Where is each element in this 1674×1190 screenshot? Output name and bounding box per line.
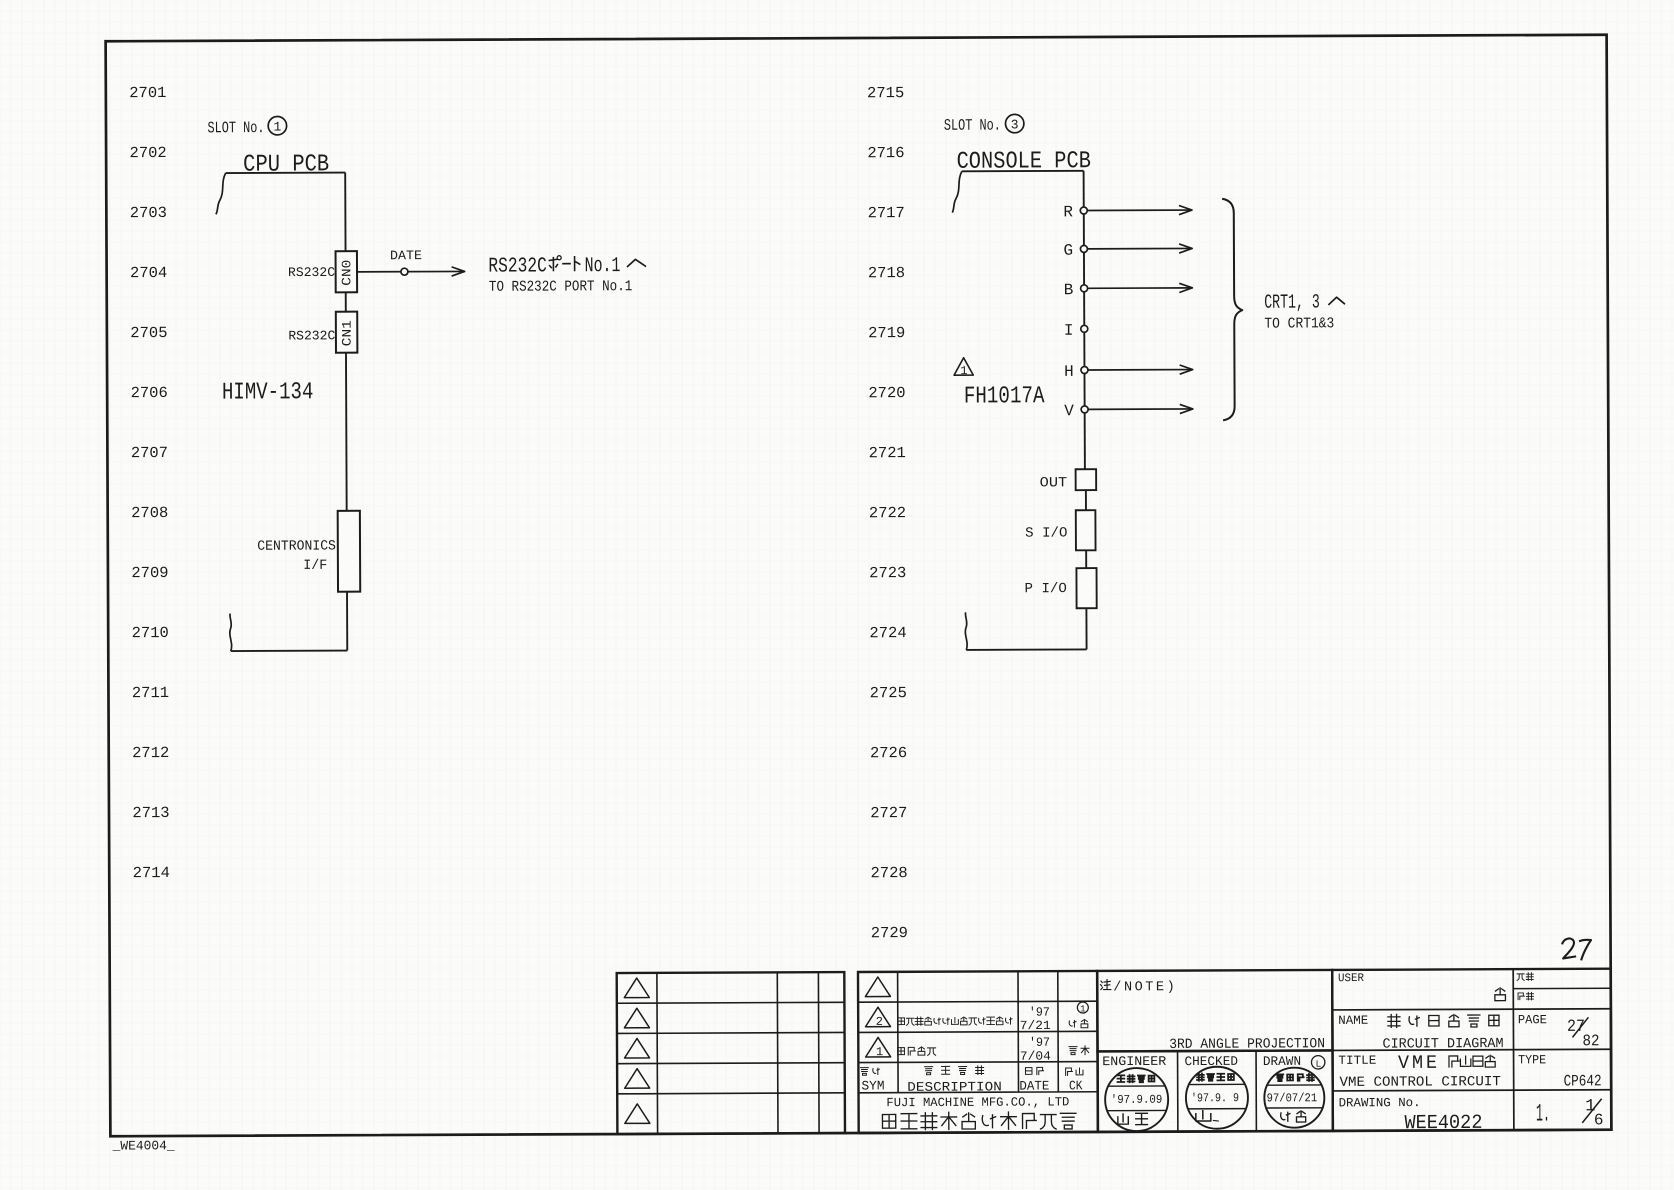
- wire B to CRT: [1088, 287, 1193, 289]
- wire CN1 to CENTRONICS I/F: [345, 353, 348, 511]
- svg-text:S I/O: S I/O: [1025, 525, 1067, 541]
- seiban label: [1518, 993, 1524, 1000]
- katakana long vowel bar: [562, 263, 571, 265]
- svg-text:No.1: No.1: [585, 255, 621, 278]
- svg-text:2707: 2707: [131, 444, 168, 462]
- wire CENTRONICS to board bottom edge: [346, 592, 348, 651]
- svg-text:2727: 2727: [870, 804, 907, 822]
- revision triangle row1: [865, 977, 890, 997]
- connector CN0 (RS232C): [336, 251, 358, 292]
- wire G to CRT: [1088, 247, 1193, 249]
- wire R to CRT: [1087, 209, 1192, 211]
- svg-text:I: I: [1064, 322, 1074, 340]
- svg-text:SLOT No.: SLOT No.: [944, 117, 1001, 135]
- company name Japanese (Fuji Kikai Seizou KK): [882, 1114, 895, 1128]
- svg-text:VME CONTROL CIRCUIT: VME CONTROL CIRCUIT: [1339, 1074, 1500, 1091]
- wire P I/O to board bottom: [1085, 608, 1087, 649]
- svg-text:H: H: [1064, 363, 1074, 381]
- bunban label: [1517, 974, 1524, 981]
- svg-text:CN1: CN1: [340, 320, 355, 346]
- revision 2 CK stamp: circled 1 + Esaka: [1077, 1002, 1088, 1013]
- svg-text:FH1017A: FH1017A: [964, 383, 1045, 410]
- svg-text:/NOTE): /NOTE): [1113, 980, 1177, 995]
- svg-text:1: 1: [876, 1045, 883, 1059]
- svg-text:CN0: CN0: [339, 260, 354, 286]
- video bus wire R..V: [1084, 171, 1085, 469]
- revision triangle placeholder row 2: [624, 1008, 649, 1028]
- svg-text:WEE4022: WEE4022: [1404, 1112, 1482, 1135]
- hiragana he (to): [627, 259, 646, 267]
- svg-text:ENGINEER: ENGINEER: [1102, 1054, 1166, 1069]
- svg-text:R: R: [1063, 203, 1073, 221]
- document name: denki kairo senzu: [1388, 1014, 1400, 1027]
- svg-text:1.: 1.: [1536, 1099, 1550, 1128]
- svg-text:2722: 2722: [869, 504, 906, 522]
- checked stamp (Yama..): [1186, 1067, 1248, 1129]
- svg-text:2724: 2724: [869, 624, 906, 642]
- wire OUT to S I/O: [1085, 490, 1087, 510]
- svg-text:V: V: [1064, 402, 1074, 420]
- svg-text:HIMV-134: HIMV-134: [222, 379, 314, 406]
- svg-text:2728: 2728: [870, 864, 907, 882]
- yama kanji: [1196, 1110, 1211, 1121]
- svg-text:2716: 2716: [867, 144, 904, 162]
- svg-text:2719: 2719: [868, 324, 905, 342]
- revision triangle placeholder row 1: [624, 978, 649, 998]
- svg-text:CIRCUIT DIAGRAM: CIRCUIT DIAGRAM: [1382, 1036, 1503, 1053]
- svg-text:'97.9. 9: '97.9. 9: [1191, 1091, 1239, 1105]
- svg-text:I/F: I/F: [303, 558, 327, 574]
- svg-text:DATE: DATE: [390, 248, 422, 263]
- svg-text:SYM: SYM: [861, 1078, 884, 1093]
- svg-text:'97: '97: [1029, 1006, 1050, 1020]
- note label (chuu/NOTE): [1101, 980, 1111, 990]
- wire V to CRT: [1088, 408, 1193, 410]
- wire CN0 to CN1: [345, 292, 347, 311]
- svg-text:USER: USER: [1338, 972, 1364, 985]
- svg-text:2725: 2725: [870, 684, 907, 702]
- svg-text:2715: 2715: [867, 84, 904, 102]
- svg-text:RS232C: RS232C: [488, 255, 547, 278]
- svg-text:CRT1, 3: CRT1, 3: [1264, 291, 1320, 314]
- svg-text:2708: 2708: [131, 504, 168, 522]
- connector OUT: [1076, 469, 1097, 490]
- svg-text:CP642: CP642: [1564, 1072, 1602, 1090]
- wire H to CRT: [1088, 369, 1193, 371]
- svg-text:2718: 2718: [868, 264, 905, 282]
- svg-text:2: 2: [876, 1015, 883, 1029]
- CONSOLE PCB board outline top edge: [962, 170, 1084, 173]
- svg-text:3: 3: [1011, 117, 1019, 132]
- katakana to: [575, 256, 581, 271]
- katakana po: [549, 257, 559, 271]
- svg-text:TO RS232C PORT No.1: TO RS232C PORT No.1: [489, 278, 632, 296]
- svg-text:2702: 2702: [129, 144, 166, 162]
- wire CPU PCB top to CN0: [344, 173, 346, 252]
- svg-text:82: 82: [1582, 1032, 1599, 1050]
- svg-text:RS232C: RS232C: [288, 328, 335, 343]
- svg-text:B: B: [1064, 281, 1074, 299]
- handwritten page number 27: [1562, 938, 1576, 958]
- hiragana he (to CRT): [1328, 297, 1345, 305]
- svg-text:'97.9.09: '97.9.09: [1111, 1093, 1163, 1107]
- svg-text:_WE4004_: _WE4004_: [112, 1138, 175, 1153]
- slot number 3 circled: [1005, 114, 1023, 132]
- wire DATE from CN0 to RS232C port: [357, 270, 465, 272]
- CPU PCB bottom-left break squiggle: [230, 614, 232, 652]
- svg-text:2721: 2721: [869, 444, 906, 462]
- svg-text:CPU PCB: CPU PCB: [243, 151, 329, 178]
- NOTE box: [1097, 970, 1332, 1052]
- svg-text:2710: 2710: [132, 624, 169, 642]
- svg-text:PAGE: PAGE: [1518, 1013, 1547, 1027]
- revision triangle 2: [865, 1007, 890, 1027]
- revision triangle placeholder row 3: [624, 1038, 649, 1058]
- svg-text:6: 6: [1594, 1111, 1604, 1129]
- svg-text:VME: VME: [1398, 1052, 1440, 1074]
- CPU PCB board outline left break squiggle: [216, 173, 226, 214]
- header SYM (kigou): [861, 1068, 869, 1076]
- CPU PCB board outline bottom edge: [231, 650, 347, 653]
- svg-text:2703: 2703: [130, 204, 167, 222]
- slot number 1 circled: [268, 116, 286, 134]
- svg-text:2714: 2714: [133, 864, 170, 882]
- header DATE (hizuke): [1025, 1068, 1032, 1075]
- svg-text:1: 1: [960, 364, 967, 378]
- dono kanji: [1495, 988, 1506, 1001]
- svg-text:2717: 2717: [868, 204, 905, 222]
- wire S I/O to P I/O: [1085, 550, 1087, 568]
- svg-text:2709: 2709: [131, 564, 168, 582]
- circled L after DRAWN: [1311, 1056, 1324, 1069]
- svg-text:2723: 2723: [869, 564, 906, 582]
- CONSOLE PCB left break squiggle: [952, 171, 962, 212]
- svg-text:DATE: DATE: [1019, 1078, 1049, 1093]
- svg-text:2706: 2706: [131, 384, 168, 402]
- svg-text:P I/O: P I/O: [1024, 581, 1066, 597]
- svg-text:2726: 2726: [870, 744, 907, 762]
- engineer stamp (Adachi): [1105, 1068, 1168, 1131]
- svg-text:1: 1: [1080, 1004, 1085, 1014]
- svg-text:TITLE: TITLE: [1338, 1054, 1376, 1068]
- svg-text:NAME: NAME: [1338, 1014, 1368, 1028]
- svg-text:'97: '97: [1029, 1036, 1050, 1050]
- svg-text:2729: 2729: [871, 924, 908, 942]
- svg-text:CENTRONICS: CENTRONICS: [257, 538, 336, 554]
- CPU PCB board outline top edge: [226, 172, 345, 175]
- svg-text:2711: 2711: [132, 684, 169, 702]
- svg-text:FUJI MACHINE MFG.CO., LTD: FUJI MACHINE MFG.CO., LTD: [886, 1095, 1069, 1110]
- svg-text:G: G: [1063, 242, 1073, 260]
- svg-text:2712: 2712: [132, 744, 169, 762]
- revision 1 CK: Suzuki: [1069, 1047, 1077, 1055]
- svg-text:7/21: 7/21: [1020, 1019, 1051, 1033]
- CONSOLE PCB board outline bottom edge: [966, 648, 1086, 651]
- svg-text:TO CRT1&3: TO CRT1&3: [1264, 315, 1334, 332]
- svg-text:DRAWING No.: DRAWING No.: [1339, 1096, 1421, 1110]
- revision triangle 1: [866, 1037, 891, 1057]
- drawn stamp (Esaka): [1264, 1068, 1324, 1128]
- revision triangle placeholder row 5: [625, 1104, 650, 1124]
- svg-text:1: 1: [273, 120, 281, 135]
- arrowhead to RS232C port: [452, 267, 465, 276]
- svg-text:7/04: 7/04: [1020, 1050, 1051, 1064]
- svg-text:OUT: OUT: [1040, 475, 1068, 491]
- svg-text:L: L: [1316, 1059, 1322, 1070]
- revision 2 description (Japanese): [898, 1018, 905, 1025]
- connector CENTRONICS I/F: [338, 511, 361, 592]
- approval row: ENGINEER CHECKED DRAWN: [1097, 1050, 1332, 1132]
- CONSOLE PCB bottom-left break squiggle: [965, 612, 967, 650]
- svg-text:2704: 2704: [130, 264, 167, 282]
- header CK (tantou): [1066, 1068, 1073, 1075]
- connector S I/O: [1076, 510, 1096, 550]
- brace grouping RGBIHV to CRT: [1222, 199, 1243, 421]
- node circle on DATE wire: [401, 268, 408, 275]
- svg-text:RS232C: RS232C: [288, 265, 335, 280]
- svg-text:SLOT No.: SLOT No.: [207, 119, 264, 137]
- svg-text:TYPE: TYPE: [1518, 1053, 1546, 1067]
- header DESCRIPTION (teisei kiroku): [925, 1067, 933, 1075]
- revision strip table (left, empty): [617, 972, 845, 1134]
- revision 1 description: model change (Japanese): [898, 1048, 905, 1055]
- svg-text:2720: 2720: [868, 384, 905, 402]
- svg-text:97/07/21: 97/07/21: [1267, 1091, 1318, 1105]
- revision triangle 1 marker: [954, 358, 973, 375]
- revision triangle placeholder row 4: [625, 1069, 650, 1089]
- connector P I/O: [1076, 568, 1096, 608]
- svg-text:2705: 2705: [130, 324, 167, 342]
- revision history table: [858, 971, 1098, 1133]
- svg-text:DESCRIPTION: DESCRIPTION: [907, 1079, 1002, 1094]
- title information block: [1332, 969, 1611, 1131]
- svg-text:2713: 2713: [132, 804, 169, 822]
- svg-text:CK: CK: [1069, 1078, 1083, 1093]
- svg-text:2701: 2701: [129, 84, 166, 102]
- connector CN1 (RS232C): [336, 312, 358, 353]
- svg-text:DRAWN: DRAWN: [1263, 1054, 1301, 1069]
